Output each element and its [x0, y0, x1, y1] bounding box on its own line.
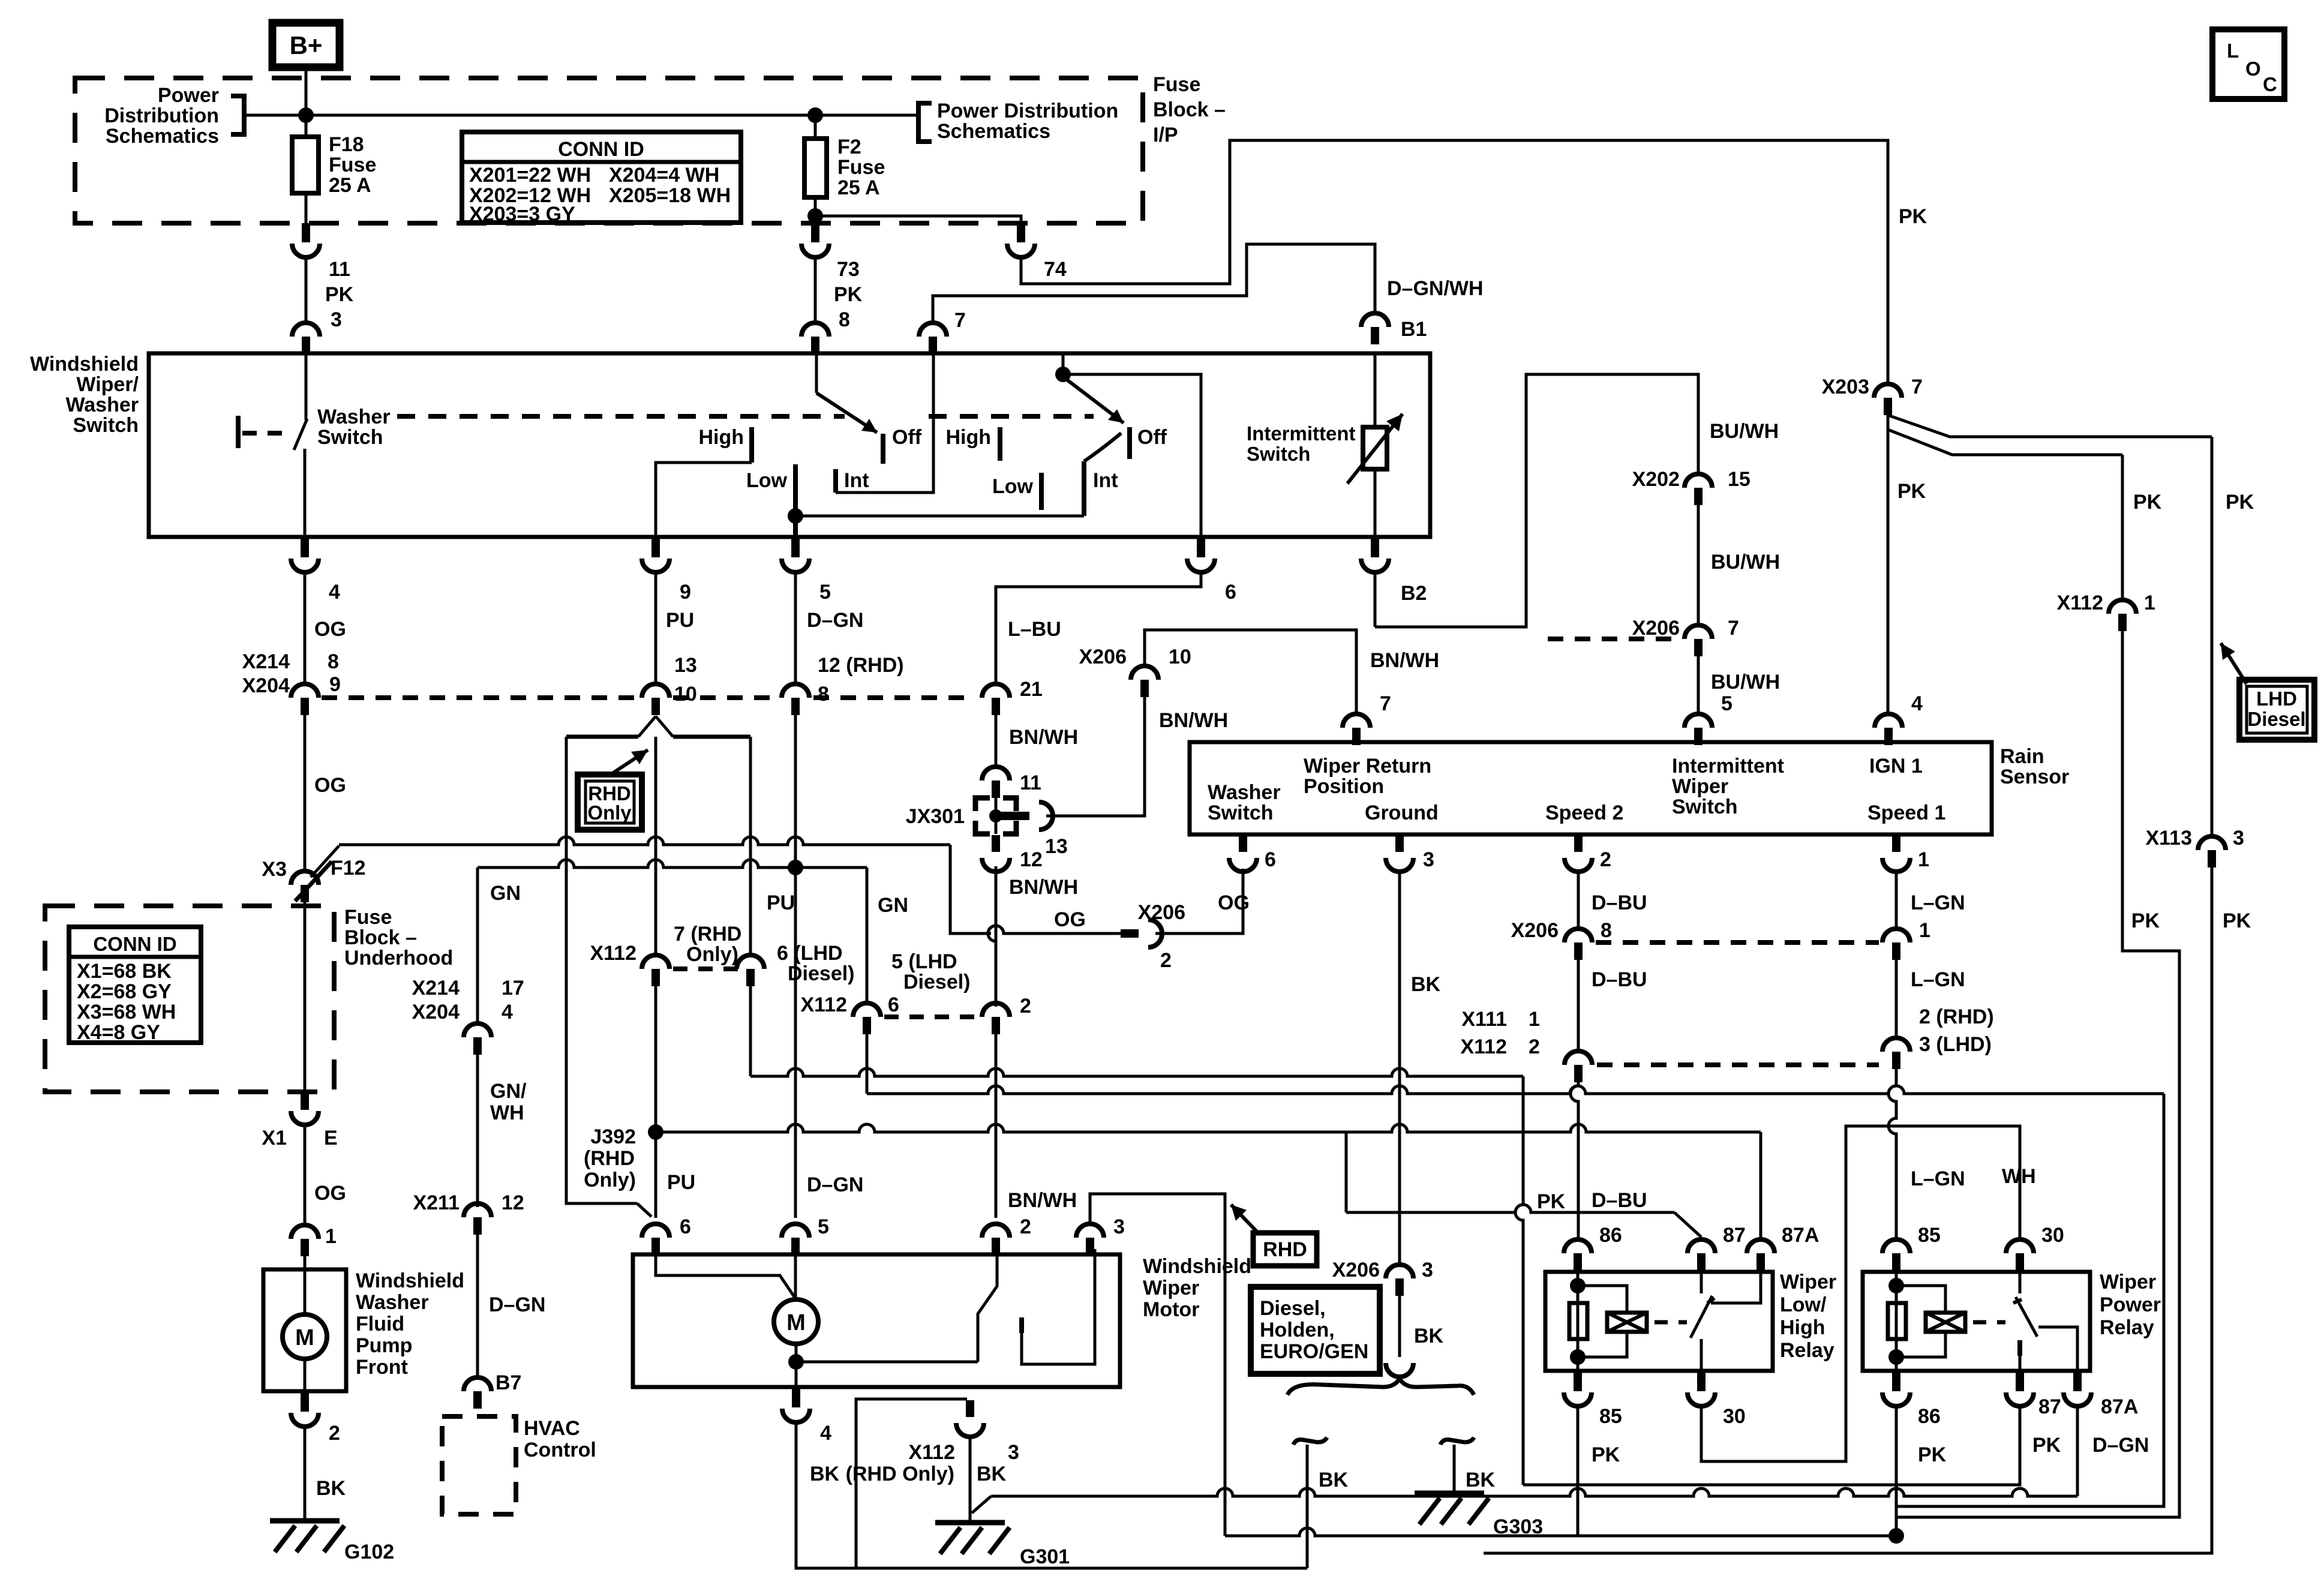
label OG 3: [314, 1182, 346, 1205]
wire BK motor up leg: [856, 1399, 967, 1568]
svg-text:PK: PK: [1918, 1443, 1947, 1466]
svg-text:High: High: [698, 426, 744, 449]
wire PK 3687 down: [1484, 867, 2212, 1553]
svg-text:74: 74: [1044, 258, 1067, 281]
label 30 relay1: [1723, 1405, 1746, 1428]
connector B7: [464, 1377, 491, 1409]
wire PK drop to relay2 87: [1515, 1076, 1523, 1485]
svg-text:12: 12: [502, 1191, 524, 1214]
svg-text:85: 85: [1918, 1224, 1941, 1247]
svg-text:10: 10: [1169, 646, 1191, 668]
connector X206 3: [1386, 1265, 1413, 1296]
svg-text:BK: BK: [810, 1463, 840, 1485]
bracket left power distribution: [231, 96, 244, 134]
svg-text:25 A: 25 A: [837, 176, 880, 199]
park switch blade: [978, 1249, 997, 1362]
connector pump 1: [291, 1225, 319, 1256]
wire D-GN 87A long line: [991, 1488, 2077, 1496]
svg-text:D–BU: D–BU: [1592, 891, 1647, 914]
label 3 motor: [1113, 1215, 1125, 1238]
svg-text:Schematics: Schematics: [106, 125, 219, 148]
rhd option bridge: [566, 735, 750, 739]
right High contact: [998, 427, 1002, 461]
relay1 switch 87 stem: [1700, 1272, 1703, 1293]
svg-text:D–GN/WH: D–GN/WH: [1387, 277, 1484, 300]
motor feed from 6: [656, 1249, 796, 1299]
svg-text:Speed 2: Speed 2: [1545, 801, 1623, 824]
label left Int: [844, 469, 869, 492]
wire BN/WH down to X112-2: [995, 871, 998, 1003]
wire D-GN pin5 down: [794, 573, 797, 684]
washer switch contact bar: [236, 416, 241, 448]
svg-text:Underhood: Underhood: [344, 947, 453, 969]
connector relay2 86: [1882, 1372, 1910, 1406]
label HVAC Control: [524, 1417, 596, 1461]
label Rain Sensor: [2000, 745, 2069, 788]
label BU/WH mid: [1711, 551, 1780, 574]
label right High: [945, 426, 991, 449]
label 2 x112: [1020, 995, 1031, 1017]
wire Low to right Int contact: [795, 515, 1084, 518]
rain sensor box: [1190, 742, 1992, 834]
svg-text:X112: X112: [590, 942, 636, 965]
svg-text:BN/WH: BN/WH: [1008, 1189, 1077, 1212]
connector relay2 87: [2006, 1372, 2034, 1406]
svg-text:PK: PK: [1537, 1190, 1566, 1213]
svg-text:PK: PK: [834, 283, 863, 306]
fuse element F12 slash: [295, 861, 332, 901]
svg-text:OG: OG: [314, 774, 346, 797]
relay1 coil dots: [1570, 1278, 1586, 1365]
connector 3 into wiper switch: [292, 323, 320, 354]
svg-text:2: 2: [1600, 848, 1611, 871]
wire 74 to right riser: [1021, 140, 1888, 384]
svg-text:87A: 87A: [2101, 1395, 2138, 1418]
svg-text:PK: PK: [1899, 205, 1927, 228]
label LHD Diesel: [2247, 688, 2305, 730]
svg-text:High: High: [1780, 1316, 1825, 1339]
svg-text:L: L: [2227, 40, 2239, 62]
svg-text:13: 13: [1045, 835, 1068, 858]
label Washer Switch rain: [1208, 781, 1281, 824]
svg-text:X201=22 WH: X201=22 WH: [469, 164, 591, 187]
label B7: [496, 1371, 521, 1394]
wire D-GN dot to motor 5: [794, 867, 797, 1218]
svg-text:Relay: Relay: [2100, 1316, 2154, 1339]
left Int contact: [833, 469, 838, 493]
wire D-GN down to B7: [476, 1235, 479, 1377]
svg-text:X2=68 GY: X2=68 GY: [77, 980, 172, 1003]
connector 11 upper: [292, 223, 320, 257]
svg-text:6: 6: [888, 993, 899, 1016]
left mode switch common wire: [815, 355, 818, 393]
svg-text:X1: X1: [262, 1127, 287, 1149]
svg-text:F18: F18: [329, 133, 364, 156]
label X111 1: [1461, 1008, 1540, 1031]
wire L-GN mid: [1895, 960, 1898, 1038]
label F18 Fuse 25 A: [329, 133, 376, 197]
wire D-BU rain2: [1577, 871, 1580, 929]
svg-text:9: 9: [329, 673, 341, 696]
svg-text:86: 86: [1599, 1224, 1622, 1247]
svg-text:12: 12: [1020, 848, 1043, 871]
svg-text:WH: WH: [490, 1101, 524, 1124]
connector X1 E: [291, 1091, 319, 1125]
svg-text:21: 21: [1020, 678, 1043, 701]
rhd motor arrow: [1231, 1205, 1260, 1235]
svg-text:25 A: 25 A: [329, 174, 371, 197]
svg-text:Rain: Rain: [2000, 745, 2044, 768]
label 1 x206: [1919, 919, 1930, 942]
relay2 coil dots: [1888, 1278, 1904, 1365]
label BN/WH riser: [1370, 649, 1439, 672]
wire GN from line2 corner: [476, 867, 479, 1023]
node left Low junction: [788, 508, 803, 524]
label 74: [1044, 258, 1067, 281]
svg-text:8: 8: [328, 650, 339, 673]
label D-GN motor: [807, 1173, 863, 1196]
dashed X112 7-6: [673, 966, 738, 971]
svg-text:4: 4: [820, 1422, 831, 1445]
svg-text:Low: Low: [746, 469, 788, 492]
wiper power relay box: [1863, 1272, 2090, 1371]
label J392 RHD Only: [584, 1125, 636, 1191]
svg-text:F12: F12: [331, 857, 366, 879]
svg-text:BU/WH: BU/WH: [1710, 420, 1779, 443]
svg-text:OG: OG: [1218, 891, 1250, 914]
connector relay1 85: [1564, 1372, 1592, 1406]
battery B+ terminal box: [272, 23, 340, 67]
connector 73 upper: [801, 223, 829, 257]
label B2: [1401, 582, 1427, 605]
svg-text:Washer: Washer: [65, 394, 139, 416]
wire relay2 86 down: [1895, 1406, 1898, 1536]
svg-text:85: 85: [1599, 1405, 1622, 1428]
wire BK drop right: [1453, 1445, 1456, 1493]
washer pump ground wire: [304, 1359, 307, 1391]
wire 87A relay1 riser: [1759, 1132, 1762, 1238]
connector rain 7 top: [1343, 714, 1370, 745]
connector X203 7: [1874, 384, 1902, 415]
svg-text:BK: BK: [1411, 973, 1441, 996]
svg-text:X214: X214: [412, 977, 460, 999]
relay1 87A arm: [1711, 1272, 1761, 1303]
right Low contact: [1039, 473, 1044, 510]
wire OG to rain 6: [1155, 869, 1243, 933]
label X205=18 WH: [609, 184, 731, 207]
svg-text:D–GN: D–GN: [2092, 1434, 2149, 1457]
label Windshield Wiper Motor: [1143, 1255, 1251, 1321]
wire BN/WH 12 down: [995, 871, 998, 1005]
label F2 Fuse 25 A: [837, 136, 885, 199]
svg-text:3 (LHD): 3 (LHD): [1919, 1033, 1992, 1056]
svg-text:PK: PK: [2226, 491, 2254, 514]
svg-text:1: 1: [1919, 919, 1930, 942]
label left Low: [746, 469, 788, 492]
label D-BU upper: [1592, 891, 1647, 914]
hvac control dashed box: [442, 1416, 516, 1514]
connector motor 2: [982, 1224, 1010, 1255]
wire PK 11: [305, 257, 308, 323]
wire park common: [796, 1361, 978, 1364]
connector relay2 87A: [2064, 1372, 2091, 1406]
svg-text:10: 10: [674, 683, 697, 706]
svg-text:X204=4 WH: X204=4 WH: [609, 164, 719, 187]
svg-text:X206: X206: [1079, 646, 1127, 668]
rhd option fan left: [638, 716, 656, 737]
svg-text:PK: PK: [1592, 1443, 1620, 1466]
wire line2 right of dot: [795, 866, 867, 869]
wire PK 73: [814, 257, 817, 323]
label BN/WH conn21: [1009, 726, 1078, 749]
svg-text:X206: X206: [1138, 901, 1185, 924]
label L-GN mid: [1911, 968, 1965, 991]
connector 5: [782, 538, 809, 572]
svg-text:PK: PK: [2131, 909, 2160, 932]
svg-text:7: 7: [1380, 692, 1391, 715]
connector motor 3: [1076, 1224, 1104, 1255]
svg-text:BK: BK: [316, 1477, 346, 1500]
svg-text:B+: B+: [290, 31, 323, 59]
washer switch wire upper: [305, 355, 308, 420]
label 30 relay2: [2041, 1224, 2064, 1247]
svg-text:15: 15: [1728, 468, 1750, 491]
svg-text:Only: Only: [587, 801, 632, 824]
svg-text:X3: X3: [262, 858, 287, 881]
relay1 suppressor loop: [1578, 1286, 1627, 1357]
svg-text:5: 5: [1721, 692, 1733, 715]
svg-text:6: 6: [680, 1215, 691, 1238]
svg-text:CONN ID: CONN ID: [93, 933, 176, 955]
wire OG X1 to pump: [304, 1124, 307, 1225]
label X113 3: [2145, 827, 2244, 849]
svg-text:M: M: [786, 1310, 806, 1335]
rhd only label box: [578, 775, 642, 830]
svg-text:30: 30: [1723, 1405, 1746, 1428]
wire OG horizontal: [339, 837, 950, 845]
dashed row X204: [322, 695, 966, 700]
svg-text:Wiper Return: Wiper Return: [1304, 755, 1431, 778]
label 4 rain: [1911, 692, 1923, 715]
dashed X111 row: [1597, 1062, 1879, 1067]
svg-text:87: 87: [2038, 1395, 2061, 1418]
svg-text:High: High: [945, 426, 991, 449]
connector 9: [642, 538, 669, 572]
svg-text:X112: X112: [908, 1441, 955, 1464]
relay2 switch 30 stem: [2019, 1272, 2022, 1293]
connector X112 6: [853, 1003, 881, 1034]
conn id table I/P: [462, 132, 741, 223]
label PK 3538: [2133, 491, 2162, 514]
label X112 2 right: [1460, 1035, 1539, 1058]
connector X112 7 RHD: [642, 955, 669, 986]
label BU/WH top: [1710, 420, 1779, 443]
label X214 8: [242, 650, 339, 673]
svg-text:5 (LHD: 5 (LHD: [891, 950, 957, 973]
svg-text:HVAC: HVAC: [524, 1417, 580, 1440]
connector relay1 30: [1688, 1372, 1715, 1406]
svg-text:Block –: Block –: [344, 926, 417, 949]
wire F2 down to junction: [814, 197, 817, 216]
label 7: [954, 309, 966, 332]
label 5 motor: [818, 1215, 829, 1238]
label Ground rain: [1365, 801, 1439, 824]
wire F18 down: [305, 193, 308, 224]
wire right common to pin 6: [1063, 374, 1201, 537]
wire GN/WH down: [476, 1055, 479, 1207]
wire 3538 to jog: [1896, 631, 2179, 1517]
connector X204 pin 9: [291, 684, 319, 715]
label Windshield Wiper Washer Switch: [30, 353, 139, 437]
label D-GN 87A: [2092, 1434, 2149, 1457]
label X214 17: [412, 977, 524, 999]
label B1: [1401, 318, 1427, 341]
svg-text:12 (RHD): 12 (RHD): [818, 654, 904, 677]
connector relay1 87: [1688, 1239, 1715, 1271]
svg-text:Power: Power: [158, 84, 219, 107]
wire PU pin9 down: [654, 573, 657, 684]
intermittent switch resistor: [1363, 427, 1387, 469]
svg-text:B7: B7: [496, 1371, 521, 1394]
washer switch dashed link: [242, 431, 290, 436]
wire BK to G301: [969, 1436, 972, 1523]
label 4 motor: [820, 1422, 831, 1445]
svg-text:WH: WH: [2002, 1165, 2036, 1188]
label X2=68 GY: [77, 980, 172, 1003]
wire L-GN rain1: [1895, 871, 1898, 929]
wire G301 branch diag: [972, 1496, 991, 1513]
svg-text:Wiper: Wiper: [1143, 1277, 1199, 1299]
svg-text:6: 6: [1265, 848, 1276, 871]
svg-text:X205=18 WH: X205=18 WH: [609, 184, 731, 207]
connector relay2 85: [1882, 1239, 1910, 1271]
option curly bracket: [1287, 1379, 1474, 1395]
label 11 conn: [1020, 772, 1041, 794]
label 6 motor: [680, 1215, 691, 1238]
connector motor 5: [782, 1224, 809, 1255]
connector 4 washer: [291, 538, 319, 572]
label PK vertical: [1537, 1190, 1566, 1213]
fuse F2: [804, 139, 827, 197]
svg-text:2: 2: [329, 1422, 340, 1445]
svg-text:Ground: Ground: [1365, 801, 1439, 824]
label X202 15: [1632, 468, 1750, 491]
svg-text:Fuse: Fuse: [344, 906, 392, 929]
label BK x206-3: [1414, 1325, 1444, 1347]
wire X206-10 riser top: [1145, 630, 1356, 714]
label X203 7: [1822, 376, 1923, 398]
label X203=3 GY: [469, 203, 575, 226]
label CONN ID 2: [93, 933, 176, 955]
svg-text:X113: X113: [2145, 827, 2192, 849]
svg-text:5: 5: [818, 1215, 829, 1238]
svg-text:73: 73: [837, 258, 860, 281]
left mode switch blade: [816, 393, 877, 433]
label RHD Only motor: [846, 1463, 954, 1485]
svg-text:Low/: Low/: [1780, 1293, 1827, 1316]
connector rain 4 top: [1875, 714, 1902, 745]
svg-text:Power Distribution: Power Distribution: [937, 100, 1118, 122]
fuse F18: [292, 137, 319, 193]
washer pump feed wire: [304, 1256, 307, 1315]
svg-text:Washer: Washer: [356, 1291, 429, 1314]
label PK relay1 85: [1592, 1443, 1620, 1466]
wire PU center leg: [654, 737, 657, 955]
svg-text:9: 9: [680, 581, 691, 604]
connector rain 6 bottom: [1229, 836, 1257, 872]
label 13: [1045, 835, 1068, 858]
label X206 7 col: [1632, 617, 1739, 640]
label X206 8: [1511, 919, 1612, 942]
connector X206 8: [1565, 929, 1592, 960]
label G303: [1493, 1515, 1543, 1538]
svg-text:Switch: Switch: [73, 414, 139, 437]
svg-text:Intermittent: Intermittent: [1247, 422, 1356, 445]
label 2: [329, 1422, 340, 1445]
label L O C: [2227, 40, 2277, 95]
connector X214 17 X204 4: [464, 1023, 491, 1055]
connector B2: [1361, 538, 1389, 572]
node B+ junction: [298, 107, 314, 123]
svg-text:(RHD Only): (RHD Only): [846, 1463, 954, 1485]
svg-text:Fuse: Fuse: [1153, 73, 1200, 96]
svg-text:Fuse: Fuse: [837, 156, 885, 179]
wire relay2 87 PK: [1523, 1406, 2020, 1485]
svg-text:BU/WH: BU/WH: [1711, 551, 1780, 574]
label D-GN 12 RHD 8: [818, 654, 904, 706]
label X3=68 WH: [77, 1001, 176, 1023]
svg-text:Switch: Switch: [1208, 801, 1274, 824]
wire BU/WH to rain5: [1697, 656, 1700, 714]
connector 8 into wiper switch: [801, 323, 829, 354]
svg-text:X111: X111: [1461, 1008, 1507, 1031]
label 87 relay1: [1723, 1224, 1746, 1247]
label X202=12 WH: [469, 184, 591, 207]
wire OG pin4 down: [304, 573, 307, 684]
label X204 4: [412, 1001, 513, 1023]
label 87A relay1: [1782, 1224, 1819, 1247]
label 85 relay2: [1918, 1224, 1941, 1247]
label L-BU: [1008, 618, 1061, 641]
wire H2 GN line: [867, 1086, 2164, 1094]
svg-text:BK: BK: [977, 1463, 1007, 1485]
svg-text:PU: PU: [767, 891, 795, 914]
svg-text:B2: B2: [1401, 582, 1427, 605]
svg-text:Sensor: Sensor: [2000, 766, 2069, 788]
connector 12RHD 8 dashed row: [782, 684, 809, 715]
connector X112 6 LHD: [737, 955, 764, 986]
wire junction to connector 74: [815, 216, 1021, 226]
rhd option fan right: [656, 716, 673, 737]
label RHD motor: [1263, 1238, 1307, 1261]
label CONN ID: [558, 138, 644, 161]
left Off contact: [881, 434, 885, 464]
svg-text:4: 4: [1911, 692, 1923, 715]
label X112 3 motor: [908, 1441, 1019, 1464]
svg-text:11: 11: [329, 258, 350, 281]
wire BN/WH main: [988, 866, 996, 1002]
label 5 pin: [0, 0, 1, 1]
label 11 PK 3: [325, 258, 354, 331]
wire PU center to J392: [654, 986, 657, 1130]
label D-BU mid: [1592, 968, 1647, 991]
node bottom junction: [1888, 1528, 1904, 1544]
intermittent switch wire lower: [1374, 469, 1377, 537]
park switch contact bar: [1019, 1317, 1024, 1333]
wire B2 down: [1374, 573, 1377, 627]
svg-text:Wiper/: Wiper/: [76, 373, 139, 396]
left High contact: [749, 427, 754, 463]
